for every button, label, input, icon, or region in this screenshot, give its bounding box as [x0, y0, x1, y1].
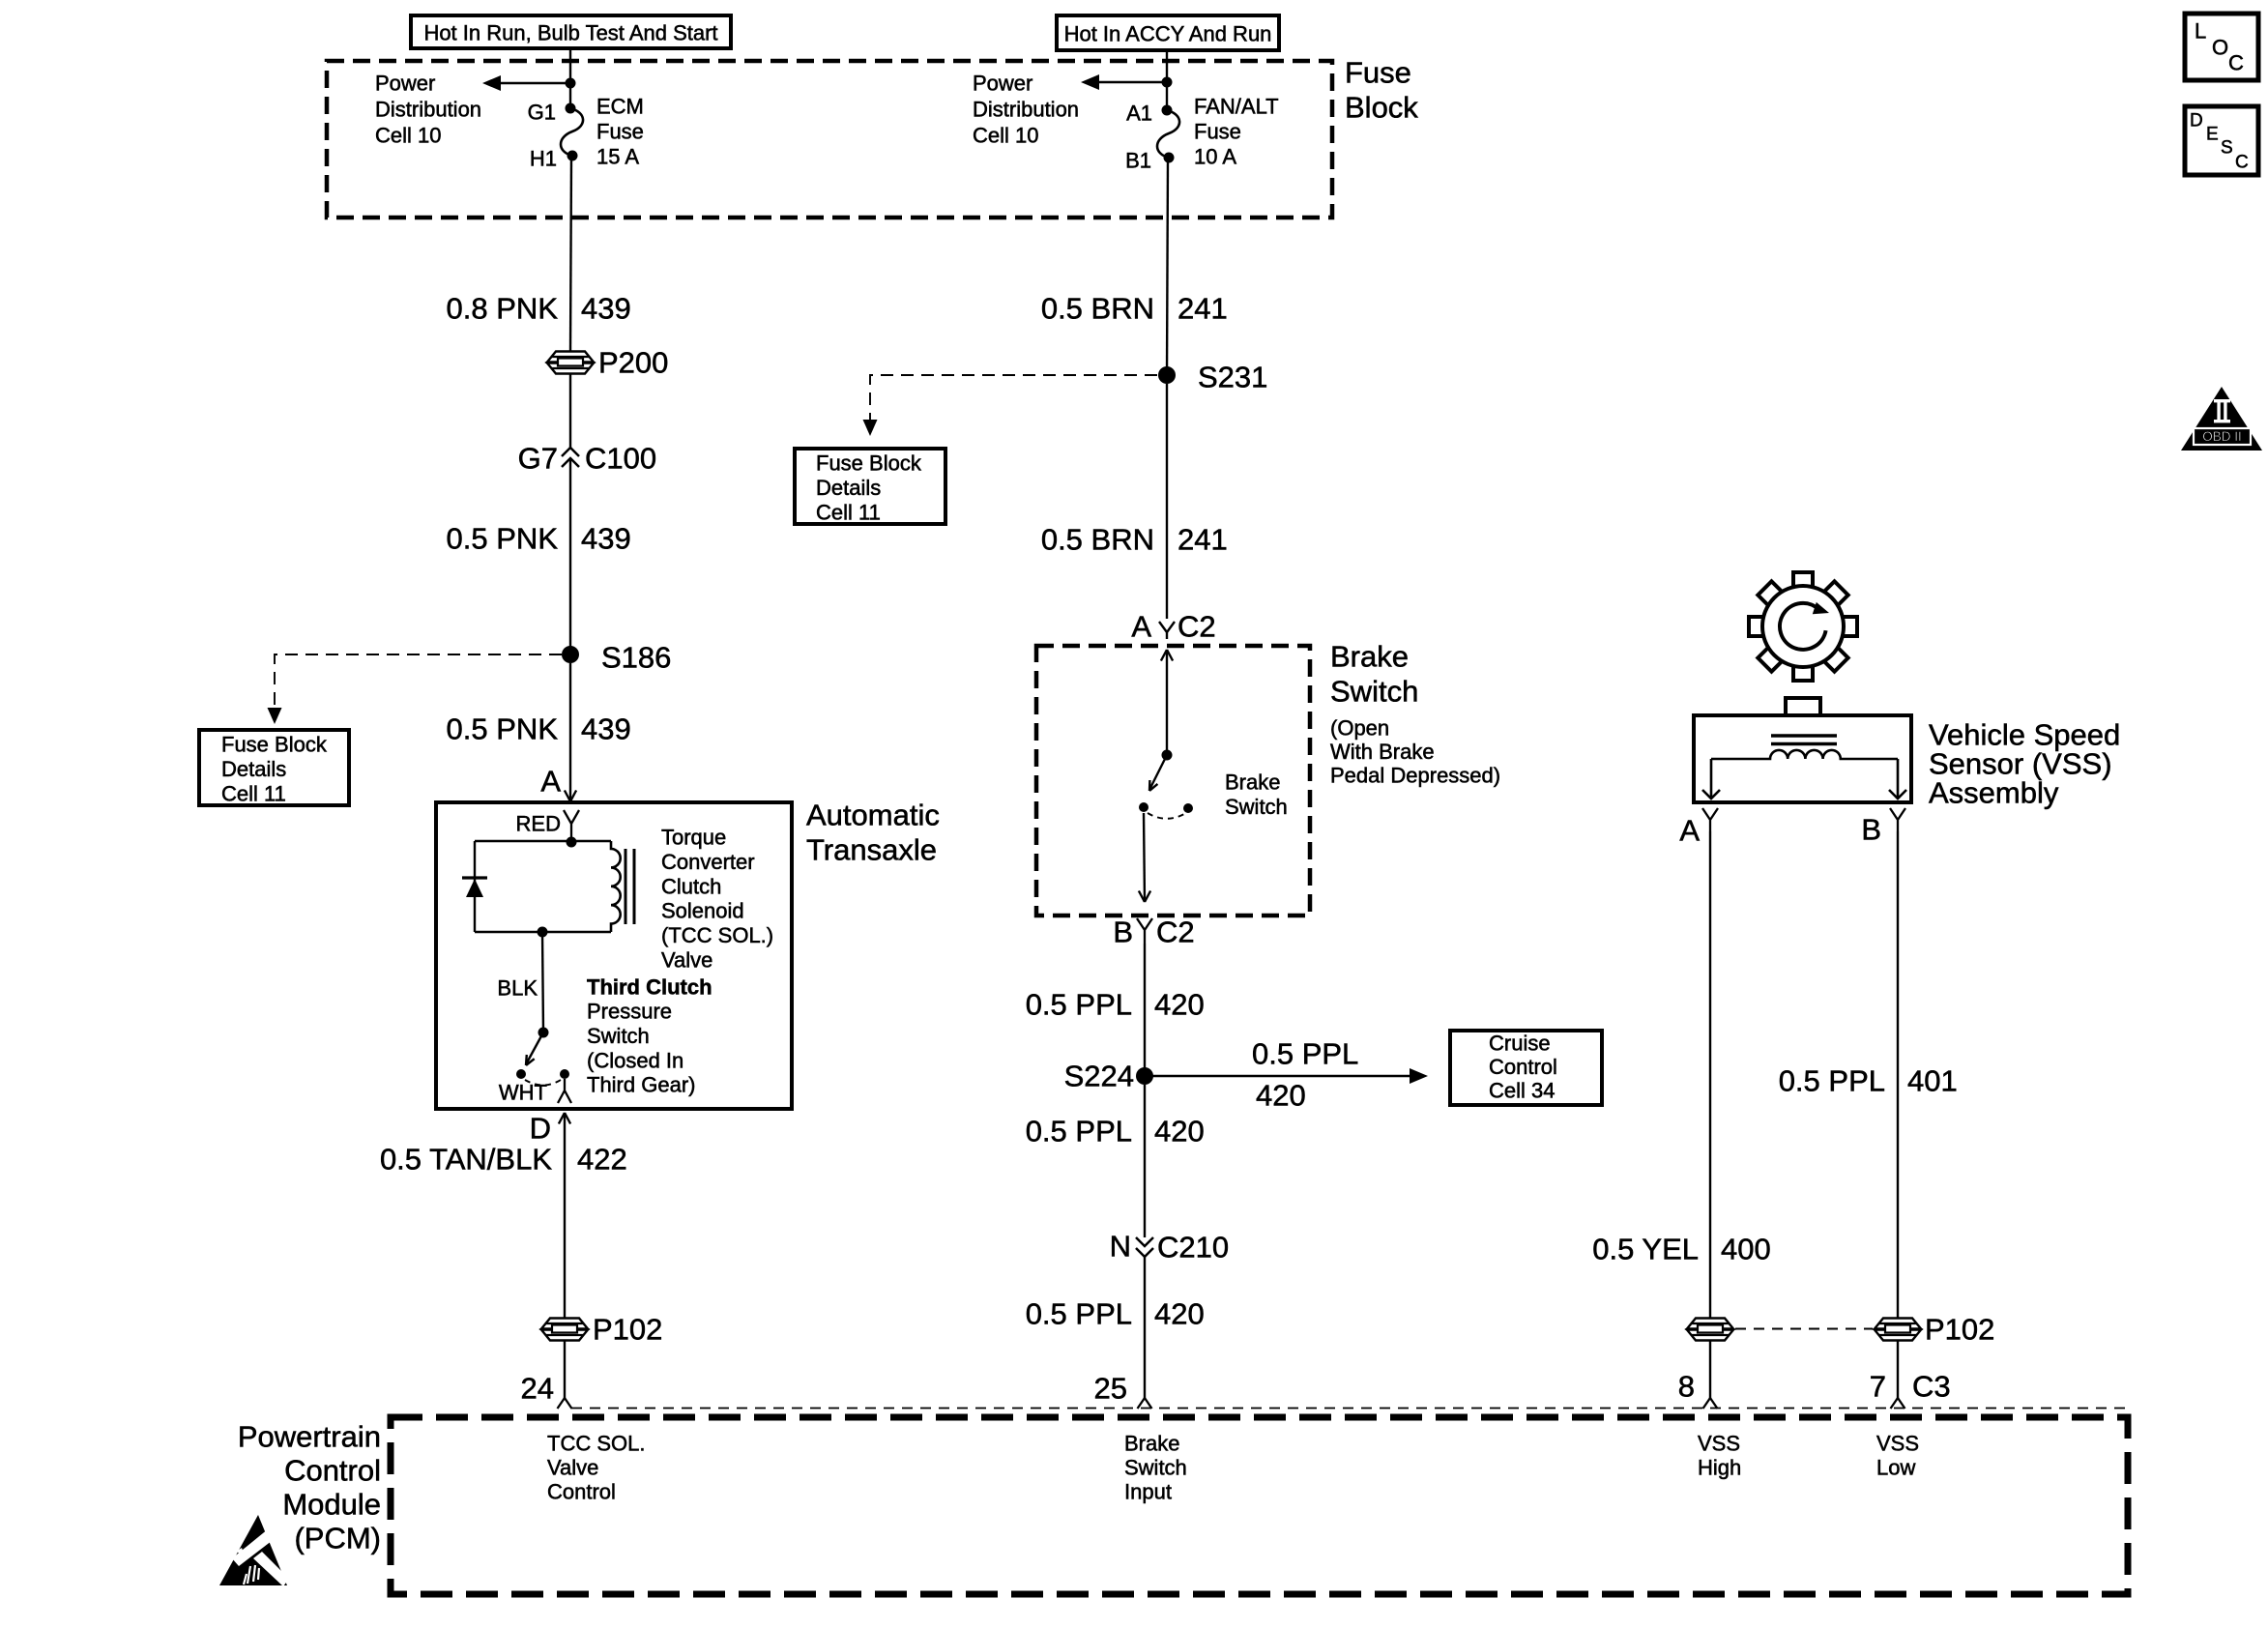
ref box: Fuse Block Details Cell 11 (middle)	[795, 449, 945, 524]
svg-text:Third Clutch: Third Clutch	[587, 975, 712, 1000]
svg-text:With Brake: With Brake	[1330, 740, 1435, 764]
wire: P102 to PCM pin 24	[564, 1341, 566, 1399]
svg-text:Valve: Valve	[547, 1456, 598, 1480]
wire: header to ECM fuse	[569, 48, 571, 108]
svg-text:Hot In ACCY And Run: Hot In ACCY And Run	[1064, 22, 1272, 46]
svg-text:401: 401	[1907, 1064, 1958, 1098]
svg-text:Power: Power	[973, 72, 1032, 96]
svg-text:C210: C210	[1157, 1231, 1229, 1265]
wire: P102 to PCM pin 8	[1709, 1341, 1711, 1399]
wire: C100 to S186	[569, 460, 571, 654]
PCM connector face (thin dashed)	[571, 1408, 2127, 1410]
svg-text:O: O	[2212, 36, 2228, 60]
svg-text:RED: RED	[516, 812, 561, 836]
node: power distribution tap (left)	[566, 78, 576, 89]
svg-text:G1: G1	[528, 101, 556, 125]
pin D of transaxle (arrow up into box)	[559, 1113, 570, 1124]
svg-text:VSS: VSS	[1698, 1432, 1740, 1456]
component box: VSS assembly	[1694, 715, 1911, 802]
svg-text:Cell 34: Cell 34	[1489, 1079, 1555, 1103]
svg-text:Cruise: Cruise	[1489, 1032, 1551, 1056]
svg-text:Fuse Block: Fuse Block	[816, 451, 922, 476]
svg-text:0.5 PNK: 0.5 PNK	[447, 522, 559, 556]
svg-text:Fuse: Fuse	[1194, 120, 1241, 144]
svg-text:(Closed In: (Closed In	[587, 1048, 683, 1072]
svg-text:400: 400	[1721, 1233, 1771, 1266]
svg-text:Fuse Block: Fuse Block	[221, 733, 328, 757]
svg-text:P102: P102	[1925, 1313, 1994, 1347]
svg-text:(PCM): (PCM)	[294, 1522, 381, 1555]
sensor stem	[1786, 698, 1820, 715]
svg-text:15 A: 15 A	[596, 145, 639, 169]
wire: S186 to transaxle pin A	[569, 663, 571, 800]
wire: coil to pin B (arrow down)	[1897, 759, 1900, 799]
svg-text:S231: S231	[1198, 361, 1267, 394]
svg-text:OBD II: OBD II	[2202, 429, 2242, 444]
svg-text:Input: Input	[1124, 1480, 1172, 1504]
svg-text:0.5 PPL: 0.5 PPL	[1779, 1064, 1885, 1098]
pickup coil core lines	[1771, 734, 1837, 737]
wire: header to FAN/ALT fuse	[1166, 50, 1168, 110]
rotation arrow inside gear	[1780, 603, 1826, 650]
svg-text:VSS: VSS	[1876, 1432, 1919, 1456]
svg-text:439: 439	[581, 522, 631, 556]
wire: VSS A down to P102	[1709, 831, 1711, 1318]
svg-text:(Open: (Open	[1330, 716, 1389, 741]
wire: P102 to PCM pin 7	[1897, 1341, 1899, 1399]
svg-text:25: 25	[1094, 1372, 1127, 1406]
svg-text:Cell 11: Cell 11	[221, 782, 286, 806]
connector P102 (grommet, VSS high)	[1687, 1319, 1733, 1329]
svg-text:BLK: BLK	[497, 976, 538, 1001]
fuse element ECM (squiggle)	[561, 108, 583, 156]
wire: solenoid to pressure switch	[542, 932, 543, 1032]
svg-text:H1: H1	[530, 147, 557, 171]
svg-text:Low: Low	[1876, 1456, 1915, 1480]
svg-text:0.5 BRN: 0.5 BRN	[1041, 292, 1154, 326]
svg-text:Switch: Switch	[587, 1024, 650, 1048]
switch travel (dashed arc)	[525, 1080, 561, 1086]
pin A1	[1162, 105, 1173, 116]
svg-text:Fuse: Fuse	[1345, 56, 1411, 90]
svg-text:Brake: Brake	[1124, 1432, 1179, 1456]
svg-text:(TCC SOL.): (TCC SOL.)	[661, 923, 773, 947]
svg-text:Brake: Brake	[1225, 770, 1280, 795]
node: solenoid top tap	[567, 837, 577, 848]
pin B of VSS (female Y)	[1890, 808, 1905, 831]
svg-text:C: C	[2228, 51, 2244, 75]
svg-text:Assembly: Assembly	[1929, 776, 2059, 810]
splice S224	[1136, 1067, 1153, 1085]
svg-text:Distribution: Distribution	[375, 98, 481, 122]
brake switch contacts	[1139, 802, 1149, 812]
leader: S186 to fuse block details (dashed)	[275, 654, 562, 710]
svg-text:A: A	[1131, 610, 1151, 644]
svg-text:Valve: Valve	[661, 948, 712, 973]
svg-text:Fuse: Fuse	[596, 120, 644, 144]
pin 8 (male caret at PCM)	[1703, 1398, 1718, 1409]
switch contacts	[516, 1069, 526, 1079]
svg-text:D: D	[2190, 111, 2203, 131]
svg-text:241: 241	[1178, 523, 1228, 557]
svg-text:N: N	[1110, 1230, 1131, 1264]
svg-text:0.8 PNK: 0.8 PNK	[447, 292, 559, 326]
svg-text:Pedal Depressed): Pedal Depressed)	[1330, 764, 1500, 788]
svg-text:D: D	[530, 1112, 551, 1146]
wire: arrow to Power Distribution (left)	[501, 82, 570, 85]
svg-text:Transaxle: Transaxle	[806, 833, 937, 867]
svg-text:Automatic: Automatic	[806, 799, 940, 832]
svg-text:Clutch: Clutch	[661, 874, 721, 898]
svg-text:S224: S224	[1064, 1060, 1134, 1093]
node: power distribution tap (right)	[1162, 77, 1173, 88]
svg-text:0.5 BRN: 0.5 BRN	[1041, 523, 1154, 557]
svg-text:Powertrain: Powertrain	[238, 1420, 381, 1454]
svg-text:10 A: 10 A	[1194, 145, 1236, 169]
svg-text:Cell 11: Cell 11	[816, 501, 881, 525]
wire: P200 to C100	[569, 374, 571, 448]
component box: PCM (heavy dashed)	[391, 1417, 2128, 1594]
svg-text:241: 241	[1178, 292, 1228, 326]
pin 7 (male caret at PCM)	[1891, 1398, 1905, 1409]
wire: H1 down to P200	[570, 156, 571, 351]
connector (female) at WHT lead	[558, 1079, 571, 1103]
svg-text:E: E	[2206, 125, 2219, 145]
pin 25 (male caret at PCM)	[1138, 1398, 1152, 1409]
ref box: Fuse Block Details Cell 11 (left)	[199, 730, 349, 805]
ESD sensitive symbol	[219, 1515, 289, 1586]
splice S231	[1158, 366, 1176, 384]
svg-text:0.5 PPL: 0.5 PPL	[1026, 988, 1132, 1022]
svg-text:FAN/ALT: FAN/ALT	[1194, 95, 1279, 119]
svg-text:420: 420	[1154, 988, 1205, 1022]
svg-text:Control: Control	[284, 1454, 381, 1488]
svg-text:B: B	[1861, 813, 1881, 847]
svg-text:439: 439	[581, 712, 631, 746]
svg-text:L: L	[2195, 19, 2206, 44]
connector P102 (grommet, left)	[541, 1319, 588, 1329]
wire: coil to pin A (arrow down)	[1710, 759, 1713, 799]
female receptacle arrow (top, inside brake box)	[1161, 650, 1173, 661]
svg-text:420: 420	[1154, 1115, 1205, 1148]
svg-text:Solenoid: Solenoid	[661, 899, 744, 923]
DESC icon box	[2185, 106, 2258, 175]
pin G1	[566, 103, 576, 114]
component box: Brake Switch (dashed)	[1036, 646, 1310, 916]
svg-text:Details: Details	[221, 757, 286, 781]
pin B1	[1164, 153, 1175, 163]
switch travel (dashed arc)	[1148, 813, 1184, 819]
wire: S224 to C210	[1144, 1085, 1146, 1237]
svg-text:Brake: Brake	[1330, 640, 1409, 674]
leader: S231 to fuse block details (dashed)	[870, 375, 1157, 422]
wire: S231 to C2 pin A	[1166, 384, 1168, 619]
svg-text:Control: Control	[547, 1480, 616, 1504]
svg-text:Hot In Run, Bulb Test And Star: Hot In Run, Bulb Test And Start	[423, 21, 717, 45]
svg-text:Cell 10: Cell 10	[375, 124, 441, 148]
svg-text:0.5 PPL: 0.5 PPL	[1252, 1037, 1358, 1071]
svg-text:C2: C2	[1156, 916, 1195, 949]
dashed tie between P102 grommets	[1735, 1328, 1873, 1330]
svg-text:422: 422	[577, 1143, 627, 1177]
svg-text:Switch: Switch	[1225, 795, 1288, 819]
svg-text:S186: S186	[601, 641, 671, 675]
connector P200 (grommet)	[547, 352, 594, 363]
header box: Hot In Run, Bulb Test And Start	[411, 15, 731, 48]
svg-text:WHT: WHT	[499, 1081, 547, 1105]
svg-text:Details: Details	[816, 476, 881, 500]
svg-text:Cell 10: Cell 10	[973, 124, 1038, 148]
connector C210 pin N (inline chevrons)	[1136, 1237, 1153, 1257]
svg-text:Distribution: Distribution	[973, 98, 1079, 122]
wire: transaxle D to P102	[564, 1113, 566, 1318]
brake switch pivot	[1162, 750, 1173, 761]
svg-text:P102: P102	[593, 1313, 662, 1347]
connector (female) at RED lead	[564, 810, 579, 837]
VSS reluctor gear icon	[1793, 572, 1813, 587]
svg-text:24: 24	[521, 1372, 554, 1406]
header box: Hot In ACCY And Run	[1057, 15, 1279, 50]
component box: Automatic Transaxle	[436, 802, 792, 1109]
pin H1	[567, 151, 578, 161]
svg-text:Module: Module	[282, 1488, 381, 1522]
svg-text:439: 439	[581, 292, 631, 326]
svg-text:8: 8	[1678, 1370, 1695, 1404]
svg-text:A: A	[1679, 814, 1700, 848]
wire: B1 down to S231	[1167, 158, 1168, 375]
svg-text:420: 420	[1154, 1297, 1205, 1331]
svg-text:Power: Power	[375, 72, 435, 96]
connector C2 pin A (caret)	[1159, 622, 1175, 639]
LOC icon box	[2185, 14, 2258, 80]
wire: S224 to cruise control (arrow)	[1145, 1075, 1410, 1077]
svg-text:A1: A1	[1126, 102, 1152, 126]
pin A of VSS (female Y)	[1702, 808, 1718, 831]
svg-text:G7: G7	[518, 442, 558, 476]
svg-text:0.5 PPL: 0.5 PPL	[1026, 1297, 1132, 1331]
svg-text:S: S	[2221, 138, 2233, 159]
solenoid coil (TCC SOL.)	[611, 841, 621, 932]
pickup coil	[1711, 750, 1898, 759]
svg-text:B: B	[1113, 916, 1133, 949]
wire: contact down and out of brake box	[1144, 813, 1145, 902]
TCC solenoid loop wiring	[475, 841, 611, 932]
brake switch arm	[1149, 755, 1167, 790]
connector C100 (inline, pin G7)	[562, 448, 579, 467]
wire: VSS B down to P102	[1897, 831, 1899, 1318]
ref box: Cruise Control Cell 34	[1450, 1031, 1602, 1105]
OBD II icon (triangle)	[2181, 387, 2262, 451]
wire: C2 B to S224	[1144, 944, 1146, 1076]
splice S186	[562, 646, 579, 663]
svg-text:C2: C2	[1178, 610, 1216, 644]
svg-text:B1: B1	[1125, 149, 1151, 173]
wire: arrow to Power Distribution (right)	[1099, 81, 1167, 84]
svg-text:Converter: Converter	[661, 850, 755, 874]
svg-text:High: High	[1698, 1456, 1741, 1480]
svg-text:Third Gear): Third Gear)	[587, 1073, 695, 1097]
svg-text:0.5 PNK: 0.5 PNK	[447, 712, 559, 746]
node: solenoid bottom tap	[538, 927, 548, 938]
fuse block boundary (dashed)	[327, 61, 1332, 218]
svg-text:420: 420	[1256, 1079, 1306, 1113]
svg-text:Torque: Torque	[661, 826, 726, 850]
svg-text:C3: C3	[1912, 1370, 1951, 1404]
svg-text:Block: Block	[1345, 91, 1418, 125]
svg-text:Switch: Switch	[1330, 675, 1418, 709]
svg-text:Pressure: Pressure	[587, 1000, 672, 1024]
connector P102 (grommet, VSS low)	[1875, 1319, 1921, 1329]
svg-text:Control: Control	[1489, 1055, 1557, 1079]
svg-text:Switch: Switch	[1124, 1456, 1187, 1480]
svg-text:A: A	[540, 765, 561, 799]
svg-text:0.5 PPL: 0.5 PPL	[1026, 1115, 1132, 1148]
third clutch pressure switch (pivot + arm)	[538, 1028, 549, 1038]
svg-text:7: 7	[1870, 1370, 1886, 1404]
connector C2 pin B (female Y)	[1137, 918, 1152, 944]
pin A of transaxle (arrow into box)	[565, 791, 576, 802]
coil core lines	[625, 849, 627, 924]
wire: C210 to PCM pin 25	[1144, 1257, 1146, 1399]
svg-text:C: C	[2235, 153, 2249, 173]
svg-text:P200: P200	[598, 346, 668, 380]
svg-text:TCC SOL.: TCC SOL.	[547, 1432, 645, 1456]
svg-text:0.5 YEL: 0.5 YEL	[1592, 1233, 1699, 1266]
diode (on left leg)	[462, 876, 487, 879]
pin 24 (male caret at PCM)	[558, 1398, 572, 1409]
svg-text:C100: C100	[585, 442, 656, 476]
svg-text:0.5 TAN/BLK: 0.5 TAN/BLK	[380, 1143, 552, 1177]
svg-text:ECM: ECM	[596, 95, 644, 119]
fuse element FAN/ALT (squiggle)	[1157, 110, 1179, 158]
